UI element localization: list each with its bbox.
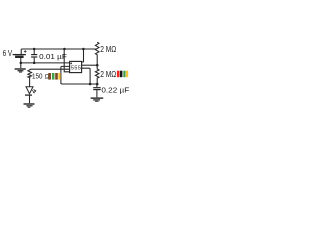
LED D1 [25,87,36,104]
svg-text:555: 555 [71,65,82,71]
pin 1 marker dot on U1 [70,63,72,65]
node: bottom bus dot pin6 [89,83,92,86]
svg-text:6 V: 6 V [3,49,13,58]
node: ground dot below C1 [33,62,36,65]
svg-text:0.22 µF: 0.22 µF [101,86,129,95]
svg-text:150: 150 [32,73,43,81]
wire: threshold pin6 [82,68,91,84]
battery B1 6V [13,49,27,63]
node: ground dot at battery [20,62,23,65]
svg-text:2 MΩ: 2 MΩ [100,69,116,79]
ground (battery) [15,63,26,72]
node: bottom bus dot cap [96,83,99,86]
node: rail dot above pin8 riser [82,48,85,51]
wire: ground bus [21,62,70,64]
node: rail dot above C1 [33,48,36,51]
resistor color bands (R2 2M: red black green gold) [117,71,128,78]
ground (C2) [91,98,104,101]
svg-text:2 MΩ: 2 MΩ [100,44,116,54]
svg-text:0.01 µF: 0.01 µF [39,52,67,61]
node: junction R1/R2/pin7 [96,64,99,67]
capacitor C2 0.22 uF [93,84,101,97]
IC U1 555 timer body [70,61,82,72]
wire: reset riser rail to pin4 [64,49,69,72]
node: rail dot above reset riser [63,48,66,51]
wire: +V top rail [21,48,96,50]
wire: pin8 vcc riser [82,49,84,62]
wire: bottom bus (trigger/threshold node) [61,83,97,84]
resistor R2 2 Mohm [95,65,99,84]
resistor color bands (R3 150: brown green brown gold) [48,73,60,80]
wire: output pin3 to LED resistor [30,69,70,70]
resistor R1 2 Mohm [95,42,99,65]
wire: trigger drop pin2 to bottom bus [61,66,70,84]
resistor R3 150 ohm [28,70,32,87]
capacitor C1 0.01 uF [31,49,37,63]
wire: discharge pin7 [82,64,98,66]
ground (LED) [24,104,35,107]
